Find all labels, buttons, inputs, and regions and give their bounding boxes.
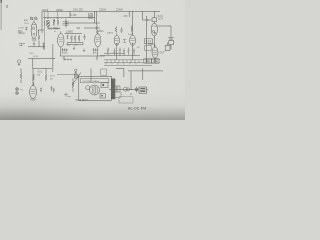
corner mark [0, 0, 2, 3]
wire vertical x96.5 [96, 11, 98, 25]
gang capacitor CT2 [53, 20, 67, 28]
trimmer pair above V1 [30, 17, 37, 20]
marks below tube G left [19, 44, 25, 47]
wire tubeG bottom area [28, 46, 45, 48]
tube V4 [114, 33, 119, 48]
stub wire right of T3 [115, 92, 121, 97]
wire inside power box [90, 69, 92, 83]
capacitor C6 right [168, 36, 173, 49]
electrolytic C8 [17, 60, 20, 66]
small comp right of tube H [40, 88, 42, 93]
svg-text:AVC: AVC [93, 52, 98, 55]
wire bottom right bus [128, 70, 163, 72]
wire vertical x70 [69, 11, 71, 17]
socket box 2 with dot [100, 94, 106, 99]
svg-text:117V: 117V [158, 19, 164, 21]
svg-text:ANT: ANT [24, 19, 29, 22]
svg-text:COIL: COIL [33, 56, 39, 58]
wire mid above tubes [65, 32, 83, 34]
wire to box [57, 74, 78, 76]
coil L1 [89, 14, 93, 19]
box T1b [145, 46, 152, 51]
wire tubeE to tubeF [153, 36, 155, 47]
paper background [0, 0, 185, 120]
ground G1 [63, 56, 65, 60]
wire vertical x142.8 [142, 68, 144, 80]
resistor R10 [38, 36, 40, 40]
wire h2 [43, 17, 95, 19]
filter capacitor C5 cluster [143, 11, 157, 23]
terminal box with dark bars [139, 87, 148, 93]
svg-text:OUT: OUT [160, 53, 165, 55]
wire vertical left drop [41, 11, 43, 33]
svg-text:12AV6: 12AV6 [116, 9, 123, 12]
wire drops to gang [45, 11, 66, 20]
wire long mid [60, 55, 105, 57]
svg-text:35W4: 35W4 [148, 44, 155, 46]
comp below tube G [33, 41, 45, 50]
resistor R2 [74, 35, 76, 42]
IF transformer T1 box [145, 39, 153, 44]
svg-text:12BE6: 12BE6 [56, 10, 64, 12]
rectifier cluster left of box [74, 69, 78, 78]
wire vertical x52.9 [52, 44, 54, 72]
wire cluster below tube A [61, 48, 97, 52]
filter choke small circle [86, 86, 90, 90]
tiny text labels [18, 9, 165, 102]
ground G3 [73, 47, 75, 50]
tube V6 rectifier [151, 23, 157, 39]
svg-text:12AV6: 12AV6 [107, 32, 114, 35]
wire below resistor row [67, 43, 83, 45]
getter dot tube C [116, 43, 118, 45]
ground G4 [83, 49, 85, 52]
small parts row y59-61 [64, 59, 73, 61]
output transformer T3 dark [111, 79, 115, 99]
terminal strip top [104, 59, 160, 64]
wire stub y16 [157, 15, 163, 17]
wire heater chain [109, 89, 133, 91]
bottom shadow [0, 92, 185, 120]
wire vertical x94 [93, 11, 95, 23]
power supply enclosure box [79, 76, 112, 100]
electrolytic pair [51, 86, 55, 93]
svg-text:47K: 47K [124, 16, 129, 18]
svg-text:OSC TRIM: OSC TRIM [47, 28, 58, 30]
resistor R5 [115, 27, 117, 33]
wire tubeH up [32, 69, 34, 86]
wire tubeA bottom to mid [60, 50, 62, 56]
svg-text:50C5: 50C5 [128, 34, 134, 36]
top bus wire [43, 10, 161, 12]
tube V2 IF amp [58, 31, 64, 50]
wire diag pointer [72, 73, 81, 86]
resistor R11 [131, 26, 133, 32]
wire tubeD bottom to strip [132, 48, 134, 60]
svg-text:LOOP: LOOP [18, 28, 24, 30]
resistor R4 [96, 25, 99, 35]
resistor R1 [71, 35, 73, 42]
dashed box above title [119, 97, 133, 103]
resistor R3 [78, 35, 80, 42]
wire left mid horizontals [38, 30, 44, 47]
wire stub y68.4 [116, 68, 124, 77]
svg-text:12BA6: 12BA6 [97, 30, 105, 33]
label strip inside box [80, 79, 109, 83]
page left edge line [0, 0, 2, 30]
tube V8 ballast [30, 84, 37, 101]
capacitor C1 [83, 34, 85, 40]
capacitor C10 [120, 28, 122, 34]
capacitor C7 [165, 43, 170, 51]
svg-text:OSC SEC: OSC SEC [73, 9, 84, 11]
wire h3 [65, 22, 100, 24]
socket box with dot [101, 82, 108, 87]
trimmer capacitor CT1 [45, 18, 50, 28]
wire vertical x132.5 [131, 71, 139, 95]
left margin text rows [18, 28, 26, 36]
detector component row [100, 48, 152, 66]
svg-text:OSC: OSC [29, 53, 34, 55]
resistor R8 [45, 74, 47, 81]
svg-text:12BA6: 12BA6 [99, 9, 107, 12]
resistor R6 [20, 73, 22, 79]
resistor R7 volume pot [33, 74, 35, 81]
ground G2 [96, 56, 98, 60]
text smudge left bottom [21, 32, 135, 92]
wire tubeB bottom to mid [97, 50, 99, 56]
svg-text:COIL: COIL [24, 23, 30, 25]
svg-text:ANT: ANT [18, 32, 23, 35]
svg-text:455KC: 455KC [62, 53, 69, 55]
wire left bottom [28, 58, 55, 60]
marks between C and D [123, 40, 127, 43]
wire vertical x132.6 [132, 11, 134, 35]
capacitor block C9 [115, 86, 120, 92]
getter dot tube D [132, 43, 134, 45]
dots T1 [146, 40, 150, 43]
wire vertical x142.5 [142, 11, 144, 20]
resistor R9 [72, 78, 74, 92]
tube V1 converter [31, 20, 37, 41]
small box on AC wires [101, 69, 107, 75]
wire right col [146, 16, 148, 63]
left text rows upper [24, 19, 30, 25]
twin circles component [123, 87, 127, 91]
wire tubeC bottom to strip [116, 48, 118, 60]
small comp left of V1 [25, 27, 28, 30]
wire left col verticals [21, 69, 46, 86]
wire h4 [48, 27, 100, 30]
wire vertical 44.6 [44, 13, 46, 51]
svg-text:12BE6: 12BE6 [66, 31, 74, 33]
wire tubeF bottom to strip [154, 58, 156, 63]
tube V7 [152, 45, 158, 61]
capacitor bars symbol [135, 87, 138, 93]
wire B+ right [157, 26, 171, 36]
tube V3 detector [95, 32, 101, 51]
capacitor C11 [67, 35, 69, 40]
svg-text:12AT6: 12AT6 [42, 9, 49, 12]
svg-text:1M: 1M [74, 45, 77, 47]
tube V5 output [130, 33, 136, 48]
wire vertical x32.8 [33, 59, 52, 69]
plus marks left of tube V8 [16, 88, 19, 95]
wire vertical x129 [128, 11, 130, 17]
bottom-left corner shadow [0, 70, 130, 120]
svg-text:IF 455: IF 455 [70, 15, 77, 17]
IF detail marks [57, 12, 69, 25]
power transformer T2 circle [90, 85, 100, 95]
misc marks under transformer [64, 93, 71, 97]
